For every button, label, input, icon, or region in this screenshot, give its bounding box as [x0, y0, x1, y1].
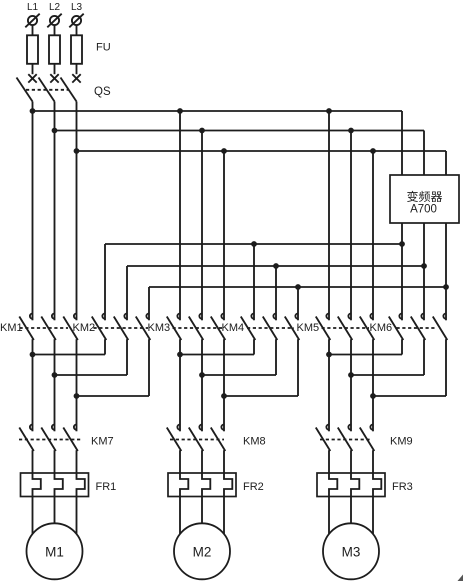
svg-text:KM6: KM6 — [370, 322, 393, 334]
svg-text:KM7: KM7 — [91, 436, 114, 448]
svg-text:QS: QS — [94, 86, 111, 98]
svg-text:L3: L3 — [71, 2, 83, 13]
svg-text:KM8: KM8 — [243, 436, 266, 448]
svg-text:FR2: FR2 — [243, 481, 264, 493]
svg-text:KM5: KM5 — [297, 322, 320, 334]
svg-text:L2: L2 — [49, 2, 61, 13]
svg-text:KM4: KM4 — [222, 322, 245, 334]
svg-text:M3: M3 — [342, 545, 361, 560]
svg-text:KM9: KM9 — [390, 436, 413, 448]
svg-text:L1: L1 — [27, 2, 39, 13]
svg-text:M1: M1 — [45, 545, 64, 560]
svg-text:FR3: FR3 — [392, 481, 413, 493]
svg-text:KM1: KM1 — [0, 322, 23, 334]
svg-text:M2: M2 — [193, 545, 212, 560]
svg-text:FR1: FR1 — [96, 481, 117, 493]
svg-text:FU: FU — [96, 42, 111, 54]
svg-text:KM3: KM3 — [148, 322, 171, 334]
svg-text:KM2: KM2 — [73, 322, 96, 334]
svg-text:A700: A700 — [410, 204, 437, 216]
